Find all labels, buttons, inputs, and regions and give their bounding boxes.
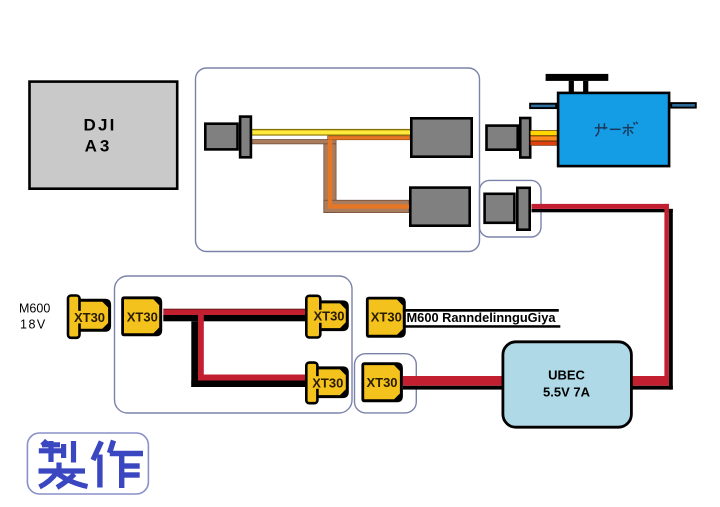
container box (top harness group) <box>196 68 480 252</box>
connector plug (left, top harness) <box>205 117 251 158</box>
gray box (lower receiver 2) <box>410 188 469 226</box>
container box (servo lower connector group) <box>480 180 542 237</box>
wire red (power, right loop) <box>403 204 669 386</box>
XT30 #2 (splitter input) <box>121 296 162 336</box>
XT30 #1 (standalone, M600 battery side) <box>68 296 111 338</box>
label M600 RanndelinnguGiya with rules <box>403 309 561 328</box>
servo lower connector (in small container) <box>485 188 530 230</box>
wire tan/orange ribbon to lower box <box>252 136 410 213</box>
UBEC box <box>503 342 632 427</box>
wire red/black branch (vertical + lower run) <box>191 315 305 387</box>
gray box (top right receiver 1) <box>411 118 471 156</box>
svg-text:18V: 18V <box>20 318 47 332</box>
servo horn <box>546 74 609 93</box>
svg-text:XT30: XT30 <box>371 309 402 324</box>
kanji SEI <box>39 441 88 488</box>
servo label (katakana sa-bo) <box>595 122 638 137</box>
wire yellow (servo signal lead, top run) <box>252 129 410 136</box>
XT30 #4 (splitter output bottom) <box>306 363 349 404</box>
wire black (power ground, right loop) <box>403 209 673 390</box>
XT30 #3 (splitter output top) <box>306 296 349 338</box>
svg-text:XT30: XT30 <box>313 309 344 324</box>
container box (battery splitter group) <box>115 276 353 413</box>
svg-text:DJI: DJI <box>83 116 116 135</box>
svg-text:5.5V 7A: 5.5V 7A <box>543 385 591 400</box>
wire red/black (battery splitter top run) <box>163 309 305 322</box>
XT30 #6 (UBEC input) <box>361 362 403 402</box>
servo body <box>558 93 669 166</box>
svg-text:XT30: XT30 <box>366 375 397 390</box>
servo lead stripes (yellow/orange/red) <box>531 130 558 146</box>
svg-text:XT30: XT30 <box>74 310 105 325</box>
XT30 #5 (to M600 landing gear line) <box>366 297 406 338</box>
label M600 / 18V <box>19 302 50 332</box>
svg-text:M600: M600 <box>19 302 50 316</box>
container box (mid XT30 group) <box>355 354 417 413</box>
svg-text:A3: A3 <box>85 137 113 156</box>
svg-text:UBEC: UBEC <box>548 368 585 383</box>
kanji SAKU <box>93 441 143 489</box>
DJI A3 flight controller box <box>30 82 178 189</box>
servo mounting tab right <box>671 103 696 108</box>
svg-text:M600 RanndelinnguGiya: M600 RanndelinnguGiya <box>407 311 557 325</box>
servo connector (upper) <box>487 118 531 158</box>
servo mounting tab left <box>530 104 556 108</box>
svg-text:XT30: XT30 <box>312 375 343 390</box>
seisaku (production) label box <box>27 433 148 494</box>
svg-text:XT30: XT30 <box>127 310 158 325</box>
